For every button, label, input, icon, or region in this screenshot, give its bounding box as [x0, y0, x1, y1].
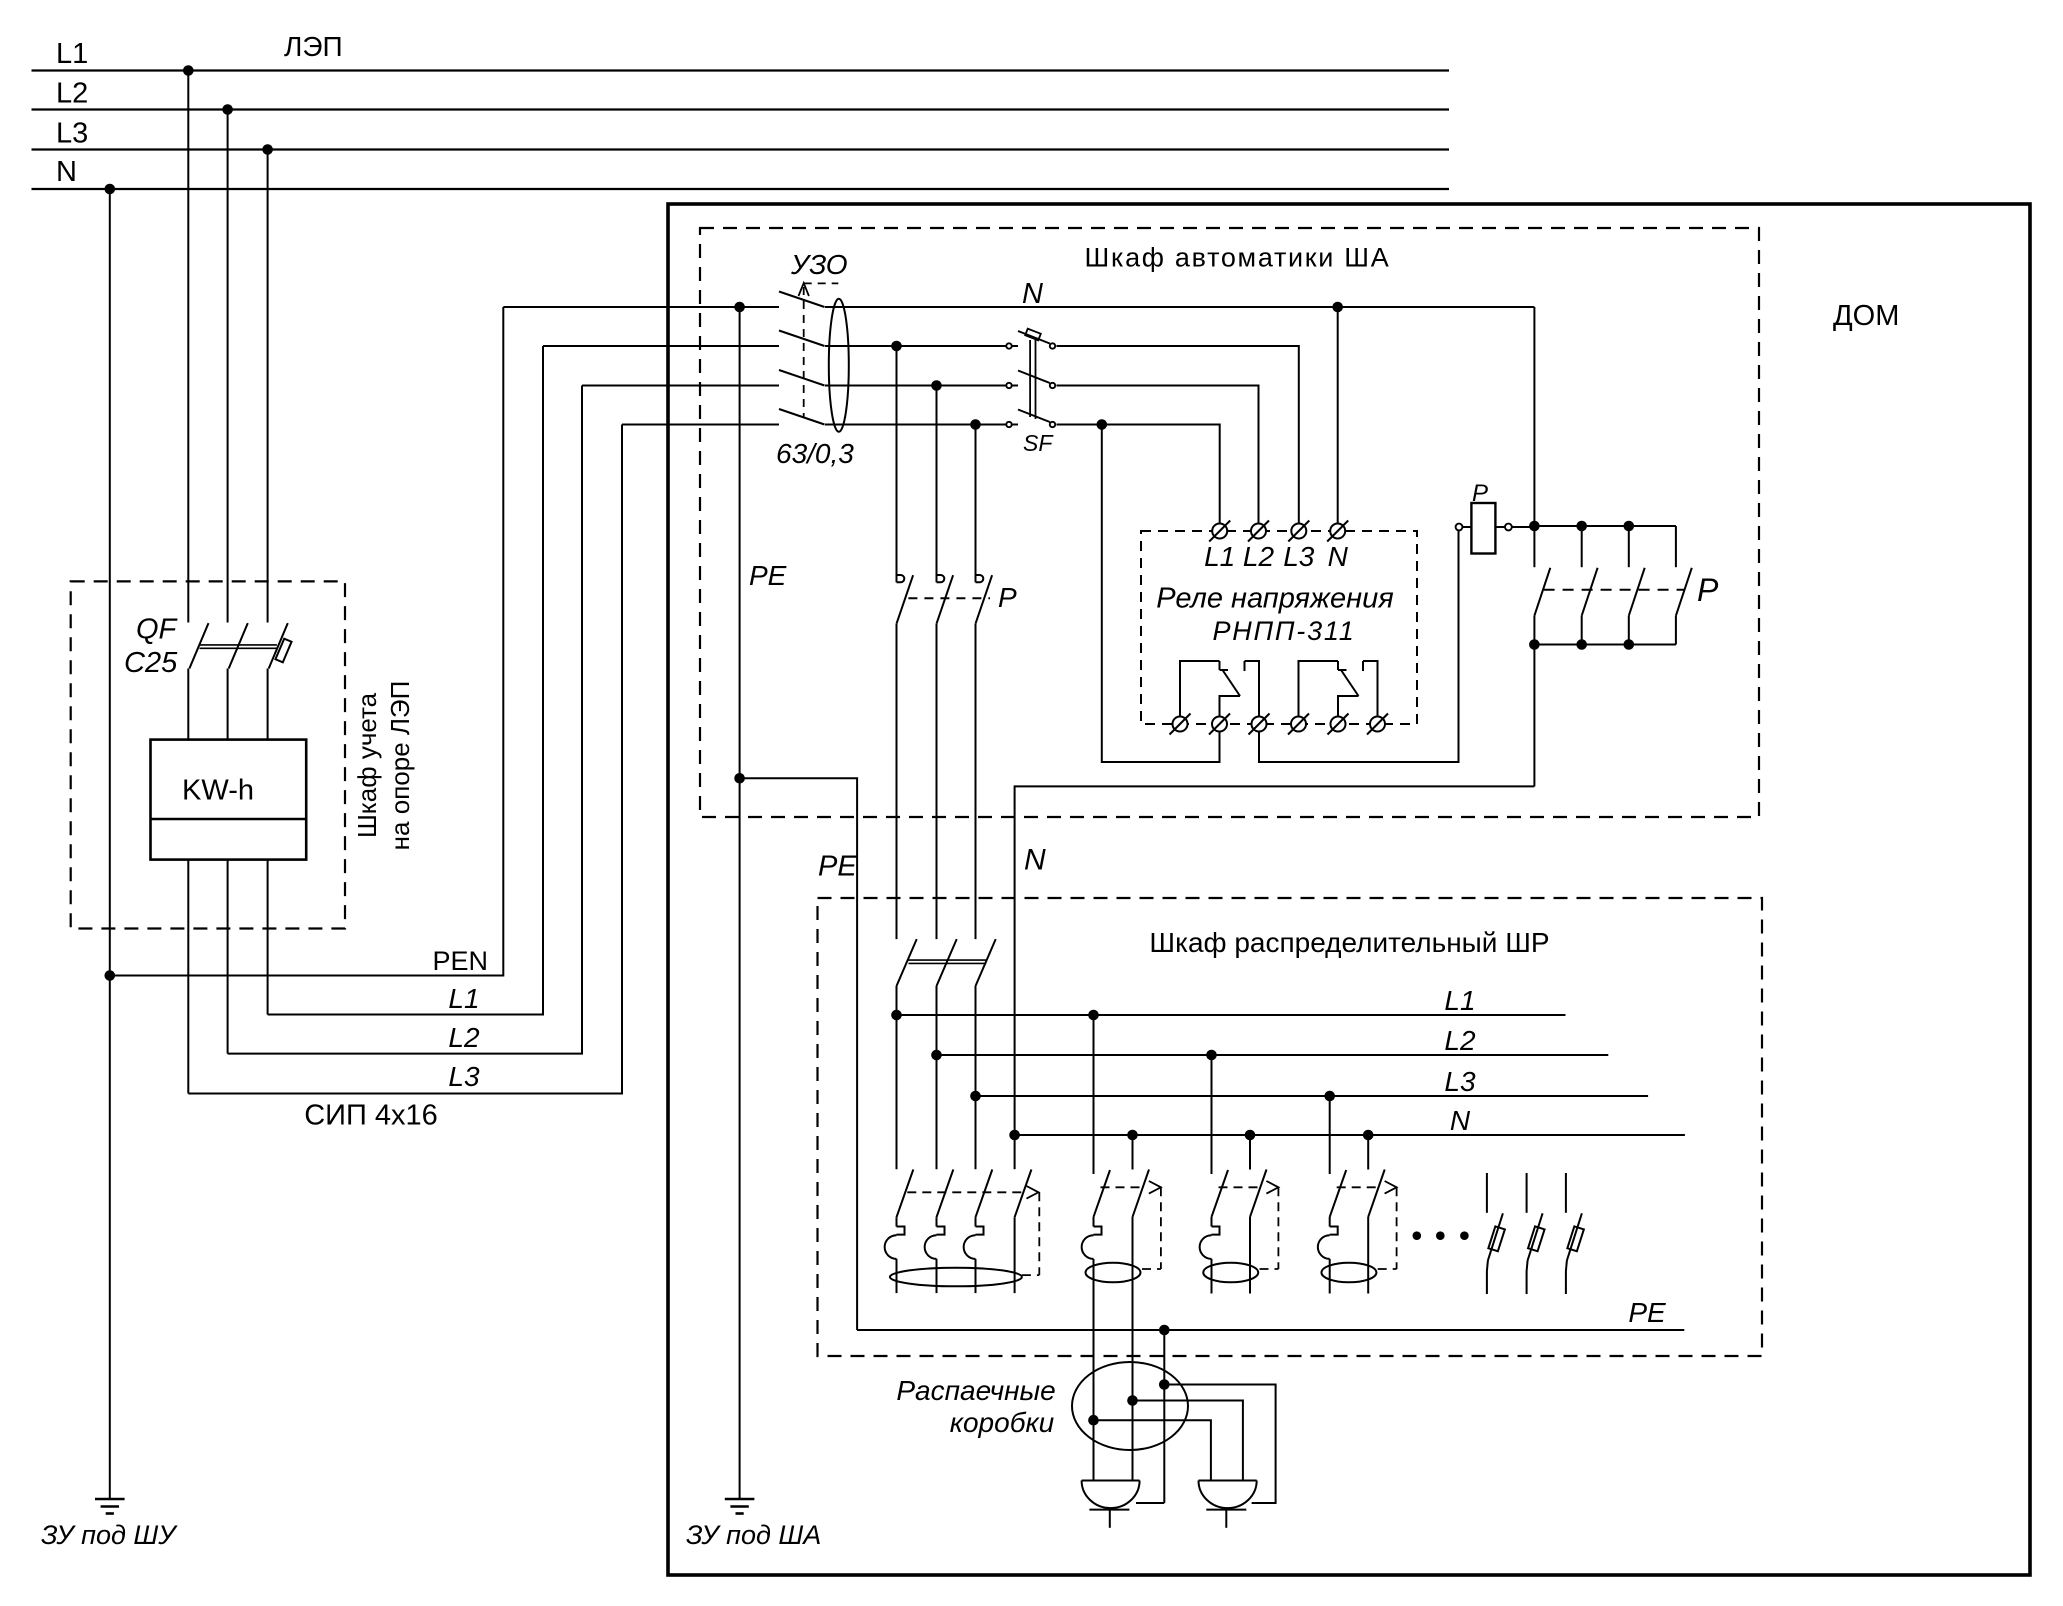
svg-text:L3: L3: [448, 1061, 480, 1092]
node L1 drop (to ШР): [891, 341, 902, 352]
wire УЗО input L3: [622, 424, 779, 426]
wire PE drop to ground (ША): [739, 307, 741, 1499]
wire L branch to lamp2: [1094, 1420, 1211, 1480]
wire L1 to SF: [825, 345, 1006, 347]
wire ШР QF out 2 to L2 bus: [936, 986, 938, 1169]
relay contact group2 NC tick: [1338, 669, 1347, 671]
wire УЗО input N: [503, 306, 779, 308]
wire QF out 3: [267, 669, 269, 740]
svg-text:PEN: PEN: [432, 946, 488, 976]
svg-text:L1: L1: [56, 38, 88, 70]
contactor P contact 2 blade: [937, 575, 954, 624]
breaker group1 dashed box bottom: [1022, 1274, 1039, 1276]
switch-fuse 1 blade: [1488, 1213, 1503, 1260]
node P bottom bus 3: [1624, 639, 1635, 650]
svg-text:L2: L2: [1243, 541, 1275, 572]
wire P contact 3 lower: [975, 624, 977, 939]
enclosure Шкаф распределительный ШР (dashed): [818, 898, 1763, 1356]
relay terminal L3: [1291, 524, 1306, 539]
breaker group4 release notch (magnetic bump): [1318, 1235, 1330, 1259]
switch SF linkage bar left: [1029, 340, 1031, 417]
svg-text:Шкаф распределительный ШР: Шкаф распределительный ШР: [1149, 927, 1549, 958]
node L3 bus tap group4: [1324, 1091, 1335, 1102]
svg-text:N: N: [1022, 278, 1043, 310]
wire L2 run: [228, 386, 582, 1054]
breaker group4 release notch: [1330, 1227, 1338, 1235]
wire coil to N bus: [1512, 526, 1535, 528]
svg-text:63/0,3: 63/0,3: [776, 438, 854, 469]
wire group2 N feed: [1132, 1135, 1134, 1170]
node N bus tap group3: [1245, 1130, 1256, 1141]
breaker group2 toroid ellipse: [1086, 1263, 1141, 1283]
RCD УЗО blade 1: [779, 292, 825, 308]
meter KW-h box: [151, 740, 307, 860]
contactor P power contact 3 blade: [1629, 568, 1645, 616]
node L1 tap: [183, 65, 194, 76]
RCD УЗО blade 4: [779, 409, 825, 425]
wire group2 phase upper: [1093, 1217, 1095, 1227]
breaker group2 release notch (magnetic bump): [1082, 1235, 1094, 1259]
node N to relay: [1332, 302, 1343, 313]
switch SF pole2 moving contact: [1050, 383, 1055, 388]
breaker group1 linkage arrow: [1027, 1186, 1039, 1199]
relay terminal 12: [1212, 717, 1227, 732]
node L3 bus left: [970, 1091, 981, 1102]
wire N return to ШР: [1015, 786, 1535, 1135]
node L2 bus left: [931, 1050, 942, 1061]
wire ШР QF out 1 to L1 bus: [896, 986, 898, 1169]
breaker group4 dashed box bottom: [1378, 1268, 1397, 1270]
relay contact group1 blade: [1223, 670, 1241, 696]
contactor P power contact 4 lower stub: [1675, 616, 1677, 645]
relay contact group1 common: [1180, 661, 1220, 717]
breaker group1 toroid ellipse: [890, 1268, 1022, 1287]
wire phase drop 1: [187, 71, 189, 623]
enclosure ДОМ (house): [668, 204, 2030, 1575]
wire bus N (ШР): [1015, 1134, 1685, 1136]
contactor P power contact 1 upper stub: [1533, 526, 1535, 567]
node relay feed tap: [1097, 419, 1108, 430]
node P top bus 3: [1624, 521, 1635, 532]
node PEN junction: [105, 970, 116, 981]
breaker group3 dashed box right: [1277, 1187, 1279, 1269]
breaker group1 linkage (dashed): [907, 1191, 1026, 1193]
node junction N: [1127, 1395, 1138, 1406]
breaker group1 pole 1 release notch: [897, 1227, 905, 1235]
wire bus L2 (ШР): [937, 1054, 1609, 1056]
node junction PE: [1159, 1379, 1170, 1390]
breaker group3 linkage arrow: [1266, 1181, 1278, 1194]
wire group4 N out: [1367, 1217, 1369, 1294]
node junction L: [1088, 1415, 1099, 1426]
svg-text:L1: L1: [1204, 541, 1235, 572]
breaker group1 pole 2 release notch: [937, 1227, 945, 1235]
breaker ШР QF trip bar upper: [909, 959, 987, 961]
svg-text:Распаечные: Распаечные: [896, 1375, 1055, 1406]
node L1 bus left: [891, 1010, 902, 1021]
wire PEN: [110, 307, 504, 976]
wire group2 phase out: [1093, 1259, 1095, 1481]
wire SF L3 to relay: [1057, 425, 1220, 524]
relay contact group2 NO leg: [1363, 661, 1378, 717]
relay terminal 11: [1173, 717, 1188, 732]
contactor P power contact 3 upper stub: [1628, 526, 1630, 567]
wire bus L1 (ШР): [897, 1014, 1566, 1016]
breaker group4 N blade: [1368, 1170, 1385, 1217]
wire PE to lamps: [1163, 1330, 1165, 1503]
ellipsis dot 2: [1436, 1231, 1445, 1240]
contactor P power contact 1 lower stub: [1533, 616, 1535, 645]
breaker group1 pole 3 blade: [976, 1170, 993, 1218]
lamp 2 stem: [1225, 1510, 1227, 1528]
wire phase drop 2: [227, 110, 229, 623]
switch SF linkage bar right: [1035, 340, 1037, 419]
breaker QF trip bar lower: [200, 647, 277, 649]
relay contact group2 NC stub: [1337, 661, 1339, 670]
switch SF pole3 moving contact: [1050, 422, 1055, 427]
svg-text:PE: PE: [818, 850, 857, 882]
breaker ШР QF pole 3 blade: [976, 939, 996, 986]
breaker group1 pole 3 release notch (magnetic bump): [964, 1235, 976, 1259]
wire group4 phase upper: [1329, 1217, 1331, 1227]
switch SF pole3 fixed contact: [1006, 422, 1011, 427]
svg-text:коробки: коробки: [950, 1407, 1055, 1438]
breaker group4 phase blade: [1330, 1170, 1347, 1217]
wire meter out 1: [187, 860, 189, 1094]
svg-text:L2: L2: [1444, 1025, 1476, 1056]
lamp 2: [1199, 1481, 1257, 1509]
contactor P power contact 4 upper stub: [1675, 526, 1677, 567]
wire group3 phase out: [1211, 1259, 1213, 1294]
breaker group3 phase blade: [1212, 1170, 1229, 1217]
enclosure Шкаф автоматики ША (dashed): [700, 228, 1759, 817]
wire N branch to lamp2: [1133, 1401, 1243, 1481]
wire P contact 2 lower: [936, 624, 938, 939]
wire relay t14 to coil: [1259, 531, 1459, 763]
switch-fuse 2 lower wire: [1527, 1260, 1528, 1294]
svg-text:L2: L2: [56, 78, 88, 110]
contactor P power contact 2 upper stub: [1581, 526, 1583, 567]
breaker group1 pole 3 release notch: [976, 1227, 984, 1235]
node P bottom bus 2: [1576, 639, 1587, 650]
relay contact group1 NO leg: [1245, 661, 1260, 717]
lamp 1 base: [1089, 1509, 1129, 1511]
wire ШР QF out 3 to L3 bus: [975, 986, 977, 1169]
switch SF pole1 blade: [1018, 331, 1050, 344]
breaker QF trip bar upper: [200, 644, 277, 646]
switch-fuse 3 blade: [1567, 1213, 1582, 1260]
relay terminal 21: [1291, 717, 1306, 732]
wire group1 N lower: [1014, 1217, 1016, 1293]
relay contact group1 moving leg: [1220, 696, 1241, 717]
breaker group3 N blade: [1250, 1170, 1267, 1217]
ellipsis dot 3: [1460, 1231, 1469, 1240]
switch SF pole2 stub: [1012, 385, 1018, 387]
RCD УЗО blade 3: [779, 370, 825, 386]
wire L3 run: [188, 425, 622, 1094]
wire SF L2 to relay: [1057, 386, 1259, 524]
contactor P power contact 2 lower stub: [1581, 616, 1583, 645]
svg-text:Реле напряжения: Реле напряжения: [1156, 583, 1393, 615]
contactor P contact 1 fixed hook: [897, 575, 905, 582]
svg-text:L3: L3: [56, 118, 88, 150]
relay terminal 24: [1370, 717, 1385, 732]
svg-text:C25: C25: [124, 647, 178, 679]
wire group1 pole 1 upper: [896, 1217, 898, 1226]
breaker QF handle: [275, 639, 291, 663]
wire PE branch to ШР: [740, 778, 858, 1330]
relay contact group2 NO stub: [1362, 661, 1364, 671]
switch SF pole1 fixed contact: [1006, 343, 1011, 348]
contactor P contact 1 blade: [897, 575, 914, 624]
breaker group4 linkage arrow: [1385, 1181, 1397, 1194]
svg-text:PE: PE: [749, 560, 787, 591]
breaker group4 dashed box right: [1396, 1187, 1398, 1269]
switch-fuse 2 fuse body: [1528, 1226, 1545, 1251]
switch-fuse 2 upper wire: [1526, 1173, 1528, 1213]
node L3 drop (to ШР): [970, 419, 981, 430]
wire УЗО input L2: [582, 385, 779, 387]
node PE tap: [734, 302, 745, 313]
wire bus L3 (ШР): [976, 1095, 1649, 1097]
wire QF out 2: [227, 669, 229, 740]
breaker QF pole 3 blade: [269, 623, 288, 668]
switch SF pole1 stub: [1012, 345, 1018, 347]
breaker group1 pole 1 release notch (magnetic bump): [885, 1235, 897, 1259]
wire N drop to ground: [109, 189, 111, 1499]
svg-text:P: P: [998, 582, 1017, 613]
switch-fuse 1 upper wire: [1486, 1173, 1488, 1213]
wire group2 N out: [1132, 1217, 1134, 1481]
wire P contacts top bus: [1534, 525, 1676, 527]
ground ЗУ под ШУ bar 1: [95, 1498, 125, 1501]
contactor P contact 3 blade: [976, 575, 993, 624]
wire L1 run: [268, 346, 543, 1015]
contactor P power contact 2 blade: [1582, 568, 1598, 616]
switch-fuse 2 blade: [1528, 1213, 1543, 1260]
wire P contact 1 upper: [896, 346, 898, 582]
breaker ШР QF trip bar lower: [909, 962, 987, 964]
svg-text:ЗУ под ША: ЗУ под ША: [686, 1520, 821, 1550]
wire P contact 2 upper: [936, 386, 938, 583]
node N bus tap group4: [1363, 1130, 1374, 1141]
relay contact group2 blade: [1341, 670, 1359, 696]
breaker group4 toroid ellipse: [1321, 1263, 1376, 1283]
relay terminal 22: [1331, 717, 1346, 732]
wire L2 to SF: [825, 385, 1006, 387]
wire group1 pole 3 lower: [975, 1259, 977, 1293]
wire N to relay: [1337, 307, 1339, 524]
breaker group2 N blade: [1133, 1170, 1150, 1217]
RCD УЗО toroid ellipse: [829, 299, 849, 432]
svg-text:KW-h: KW-h: [182, 775, 254, 807]
node N bus corner: [1009, 1130, 1020, 1141]
wire group3 phase feed: [1211, 1055, 1213, 1174]
node L2 tap: [222, 104, 233, 115]
svg-text:на опоре ЛЭП: на опоре ЛЭП: [385, 681, 415, 851]
relay terminal N: [1330, 524, 1345, 539]
contactor P power linkage (dashed): [1544, 589, 1685, 591]
node L2 bus tap group3: [1206, 1050, 1217, 1061]
wire group2 phase feed: [1093, 1015, 1095, 1174]
node L3 tap: [262, 144, 273, 155]
wire P contact 1 lower: [896, 624, 898, 939]
wire PE branch to lamp2: [1164, 1385, 1275, 1504]
svg-text:N: N: [1328, 541, 1349, 572]
ground ЗУ под ШУ bar 2: [101, 1505, 119, 1508]
switch SF pole2 fixed contact: [1006, 383, 1011, 388]
node N at coil: [1529, 521, 1540, 532]
breaker group1 N blade: [1015, 1170, 1032, 1218]
RCD УЗО linkage (dashed horizontal): [804, 282, 839, 284]
breaker group1 pole 2 blade: [937, 1170, 954, 1218]
wire L3 to SF: [825, 424, 1006, 426]
breaker group3 release notch (magnetic bump): [1200, 1235, 1212, 1259]
svg-text:РНПП-311: РНПП-311: [1212, 616, 1355, 646]
node N tap: [105, 184, 116, 195]
svg-text:N: N: [56, 156, 77, 188]
svg-text:PE: PE: [1628, 1297, 1666, 1328]
svg-text:СИП 4х16: СИП 4х16: [304, 1100, 438, 1132]
wire N return drop: [1533, 645, 1535, 787]
svg-text:SF: SF: [1023, 430, 1054, 456]
wire group4 phase out: [1329, 1259, 1331, 1294]
relay terminal L1: [1212, 524, 1227, 539]
switch-fuse 3 upper wire: [1565, 1173, 1567, 1213]
wire coil right link: [1495, 526, 1505, 528]
wire phase drop 3: [267, 150, 269, 623]
relay contact group1 NC tick: [1220, 669, 1229, 671]
lamp 1 stem: [1109, 1510, 1111, 1528]
svg-text:ДОМ: ДОМ: [1833, 300, 1899, 332]
wire relay t12 to L3 tap: [1102, 425, 1220, 763]
wire group3 phase upper: [1211, 1217, 1213, 1227]
wire P contact 3 upper: [975, 425, 977, 583]
breaker ШР QF pole 1 blade: [897, 939, 917, 986]
svg-text:УЗО: УЗО: [790, 249, 848, 280]
breaker QF pole 1 blade: [189, 623, 208, 668]
lamp 1: [1082, 1481, 1140, 1509]
wire SF L1 to relay: [1057, 346, 1299, 524]
ground ЗУ под ША bar 2: [730, 1505, 748, 1508]
contactor coil right terminal: [1505, 524, 1512, 531]
svg-text:ЛЭП: ЛЭП: [284, 31, 343, 62]
wire group1 pole 2 upper: [936, 1217, 938, 1226]
switch-fuse 3 lower wire: [1566, 1260, 1567, 1294]
wire УЗО input L1: [543, 345, 779, 347]
breaker group2 phase blade: [1094, 1170, 1111, 1217]
svg-text:N: N: [1024, 844, 1046, 877]
ellipsis dot 1: [1413, 1231, 1422, 1240]
wire QF out 1: [187, 669, 189, 740]
wire PE stub lamp1: [1136, 1502, 1164, 1504]
wire N (after УЗО): [825, 306, 1534, 308]
node P top bus 2: [1576, 521, 1587, 532]
wire meter out 3: [267, 860, 269, 1015]
breaker group2 linkage (dashed): [1101, 1186, 1143, 1188]
node L2 drop (to ШР): [931, 380, 942, 391]
switch SF pole1 moving contact: [1050, 343, 1055, 348]
wire bus L1 (ЛЭП): [32, 69, 1450, 71]
ground ЗУ под ША bar 1: [725, 1498, 755, 1501]
breaker ШР QF pole 2 blade: [937, 939, 957, 986]
contactor P contact 2 fixed hook: [937, 575, 945, 582]
relay РНПП-311 box (dashed): [1141, 531, 1417, 724]
breaker group3 dashed box bottom: [1260, 1268, 1279, 1270]
RCD УЗО linkage arrow: [799, 283, 809, 296]
contactor P power contact 3 lower stub: [1628, 616, 1630, 645]
wire group1 pole 2 lower: [936, 1259, 938, 1293]
relay contact group2 common: [1299, 661, 1339, 717]
node P bottom bus 1: [1529, 639, 1540, 650]
svg-text:N: N: [1450, 1105, 1471, 1136]
breaker group1 pole 1 blade: [897, 1170, 914, 1218]
switch SF pole2 blade: [1018, 371, 1050, 384]
svg-text:L3: L3: [1444, 1066, 1476, 1097]
contactor P contact 3 fixed hook: [976, 575, 984, 582]
breaker group3 toroid ellipse: [1203, 1263, 1258, 1283]
svg-text:L1: L1: [448, 983, 479, 1014]
breaker QF pole 2 blade: [229, 623, 248, 668]
node L1 bus tap group2: [1088, 1010, 1099, 1021]
wire meter out 2: [227, 860, 229, 1054]
ground ЗУ под ША bar 3: [736, 1512, 744, 1515]
svg-text:P: P: [1697, 572, 1719, 608]
contactor P power contact 1 blade: [1534, 568, 1550, 616]
node PE branch: [734, 773, 745, 784]
switch SF pole3 stub: [1012, 424, 1018, 426]
wire group4 N feed: [1367, 1135, 1369, 1170]
svg-text:L2: L2: [448, 1022, 480, 1053]
contactor P power contact 4 blade: [1676, 568, 1692, 616]
relay terminal 14: [1252, 717, 1267, 732]
wire group1 pole 1 lower: [896, 1259, 898, 1293]
breaker group2 release notch: [1094, 1227, 1102, 1235]
meter KW-h divider: [151, 818, 307, 821]
relay contact group2 moving leg: [1338, 696, 1359, 717]
breaker group2 dashed box bottom: [1142, 1268, 1161, 1270]
wire bus L3 (ЛЭП): [32, 148, 1450, 150]
wire group3 N out: [1249, 1217, 1251, 1294]
wire P contacts bottom bus: [1534, 644, 1676, 646]
switch SF pole3 blade: [1018, 410, 1050, 423]
breaker group1 dashed box right: [1038, 1192, 1040, 1275]
svg-text:ЗУ под ШУ: ЗУ под ШУ: [41, 1520, 178, 1550]
breaker group3 linkage (dashed): [1219, 1186, 1261, 1188]
switch SF handle: [1025, 329, 1041, 341]
switch-fuse 3 fuse body: [1567, 1226, 1584, 1251]
svg-text:Шкаф автоматики ША: Шкаф автоматики ША: [1085, 243, 1391, 273]
svg-text:QF: QF: [136, 614, 179, 646]
switch-fuse 1 fuse body: [1488, 1226, 1505, 1251]
wire N bus to group1: [1014, 1135, 1016, 1169]
switch-fuse 1 lower wire: [1487, 1260, 1488, 1294]
enclosure Шкаф учета (dashed): [71, 581, 345, 928]
wire coil left link: [1462, 526, 1471, 528]
contactor P linkage (dashed): [908, 597, 990, 599]
lamp 2 base: [1206, 1509, 1246, 1511]
relay terminal L2: [1251, 524, 1266, 539]
wire group3 N feed: [1249, 1135, 1251, 1170]
contactor coil P body: [1471, 503, 1495, 554]
RCD УЗО blade 2: [779, 331, 825, 347]
svg-text:L3: L3: [1283, 541, 1315, 572]
node PE bus tap: [1159, 1325, 1170, 1336]
svg-text:Шкаф учета: Шкаф учета: [352, 692, 382, 838]
breaker group4 linkage (dashed): [1337, 1186, 1379, 1188]
breaker group3 release notch: [1212, 1227, 1220, 1235]
wire bus PE (ШР): [857, 1329, 1684, 1331]
